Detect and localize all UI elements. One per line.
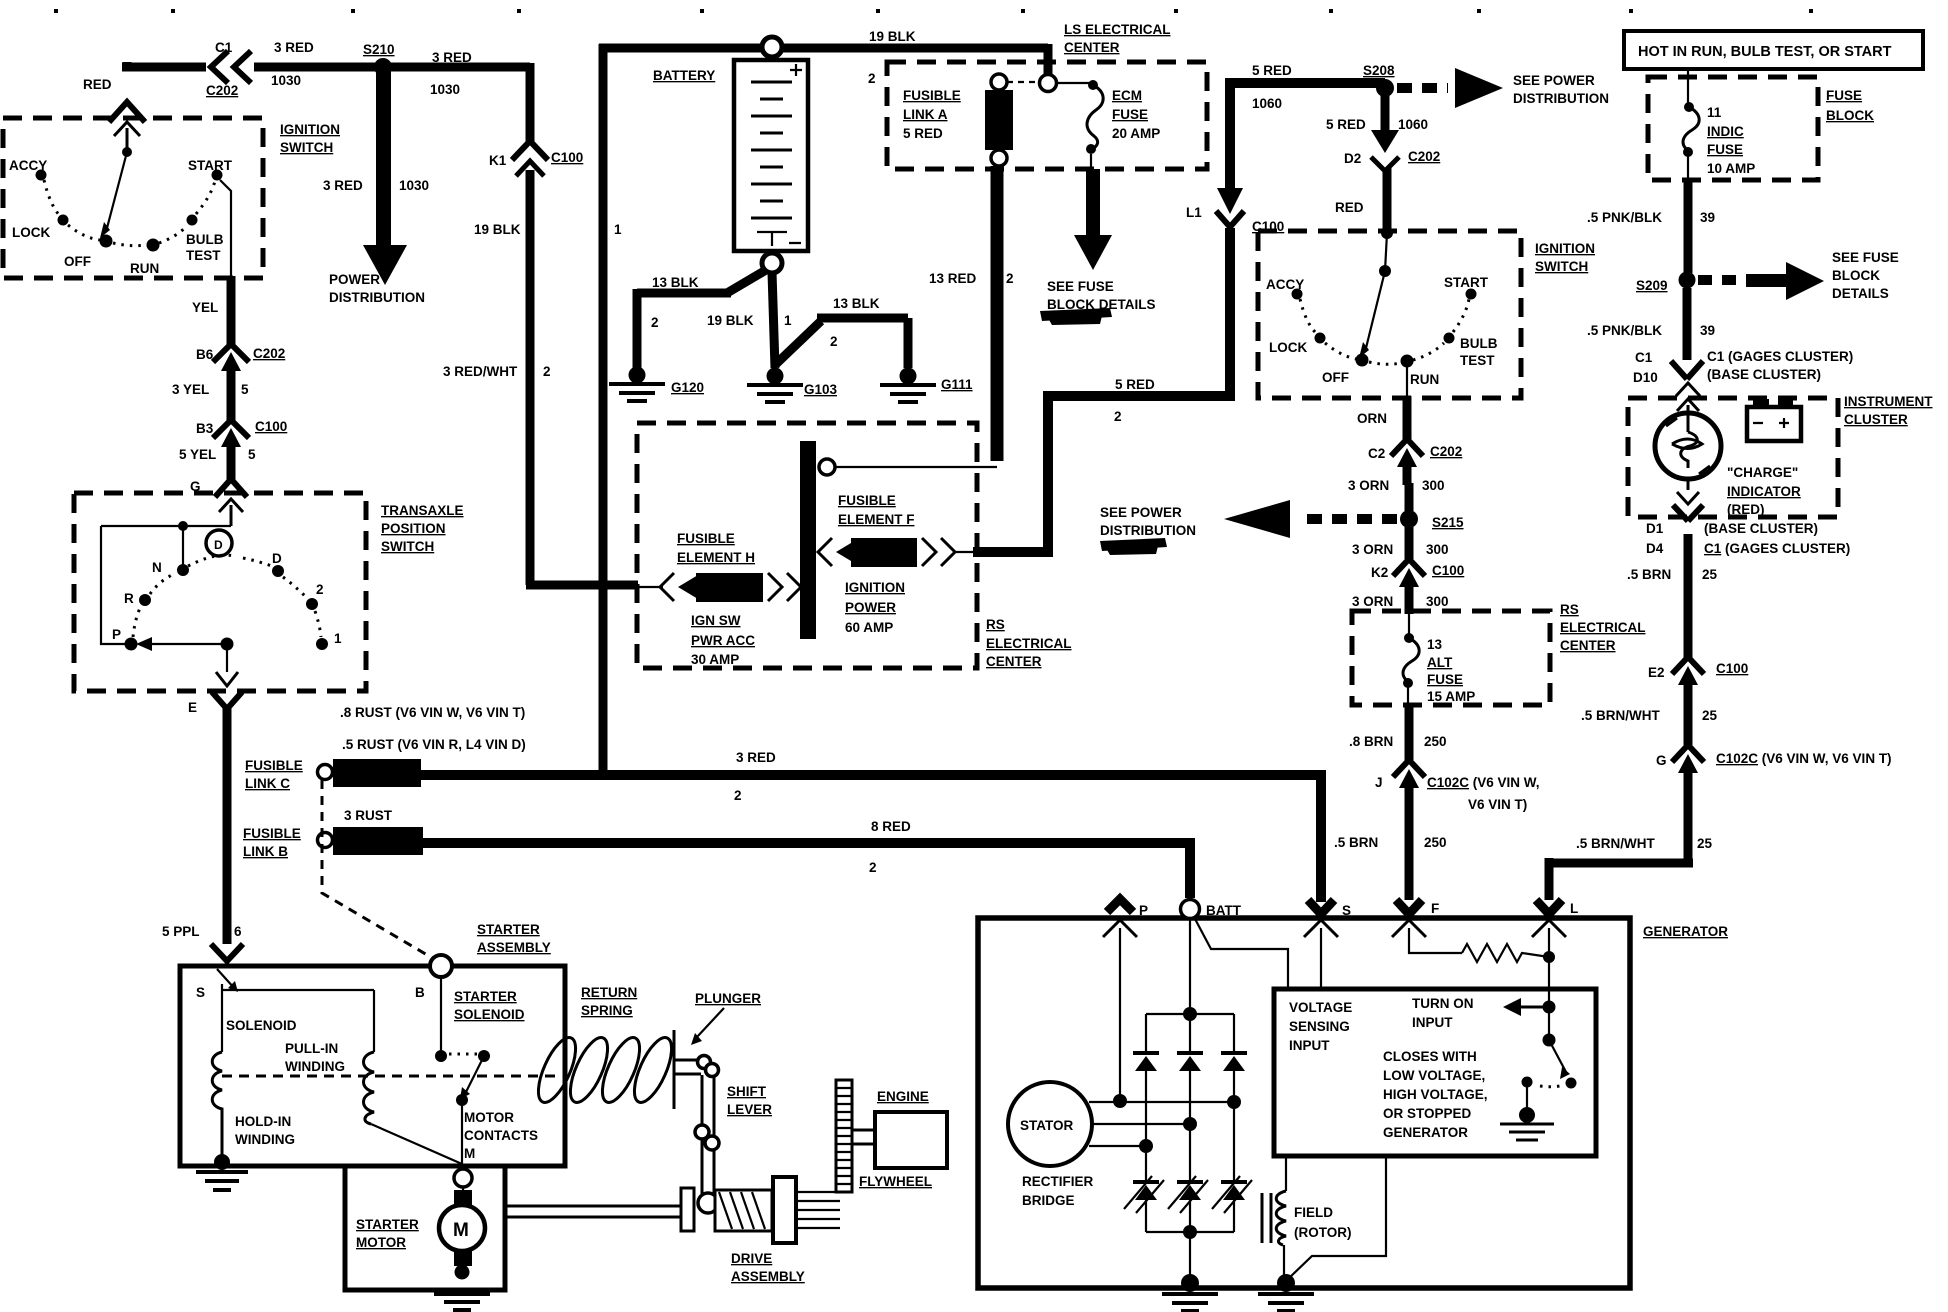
field ground <box>1277 1274 1295 1292</box>
node START <box>212 170 223 181</box>
wire from pivot down to E <box>226 644 228 672</box>
svg-text:30 AMP: 30 AMP <box>691 652 739 667</box>
terminal L <box>1536 900 1562 914</box>
svg-text:ELEMENT F: ELEMENT F <box>838 512 915 527</box>
terminal S <box>1308 900 1334 914</box>
pull-in winding coil <box>364 1052 375 1124</box>
svg-text:C100: C100 <box>1716 661 1748 676</box>
svg-text:R: R <box>124 591 134 606</box>
instrument cluster box <box>1628 398 1838 517</box>
RS electrical center box (right) <box>1352 611 1550 705</box>
svg-text:RUN: RUN <box>130 261 159 276</box>
svg-text:13 BLK: 13 BLK <box>652 275 699 290</box>
svg-text:C202: C202 <box>253 346 285 361</box>
svg-text:STARTER: STARTER <box>356 1217 419 1232</box>
wire .5 PNK/BLK 39 below S209 <box>1683 288 1692 360</box>
wire corner down to K1 <box>526 63 535 142</box>
svg-text:25: 25 <box>1697 836 1713 851</box>
svg-text:LINK C: LINK C <box>245 776 290 791</box>
svg-text:.8 RUST (V6 VIN W, V6 VIN T): .8 RUST (V6 VIN W, V6 VIN T) <box>340 705 525 720</box>
svg-text:START: START <box>1444 275 1489 290</box>
svg-text:6: 6 <box>234 924 242 939</box>
ECM fuse <box>1088 80 1098 90</box>
svg-text:ALT: ALT <box>1427 655 1453 670</box>
ground G103 <box>767 368 784 385</box>
svg-text:INSTRUMENT: INSTRUMENT <box>1844 394 1933 409</box>
svg-text:(BASE CLUSTER): (BASE CLUSTER) <box>1707 367 1821 382</box>
svg-text:.5 BRN: .5 BRN <box>1627 567 1671 582</box>
svg-text:"CHARGE": "CHARGE" <box>1727 465 1798 480</box>
motor ground <box>455 1265 470 1280</box>
svg-text:S209: S209 <box>1636 278 1668 293</box>
plunger <box>674 1030 701 1109</box>
svg-text:CONTACTS: CONTACTS <box>464 1128 538 1143</box>
wire 3 RED horizontal from ignition switch to K1 corner <box>122 62 530 71</box>
connector RED into ignition switch <box>109 102 145 122</box>
svg-text:.5 PNK/BLK: .5 PNK/BLK <box>1587 323 1662 338</box>
B terminal circle <box>430 955 452 977</box>
bus bar <box>800 441 816 639</box>
svg-text:3 RED: 3 RED <box>432 50 472 65</box>
svg-text:J: J <box>1375 775 1383 790</box>
bottom diodes with gates <box>1133 1180 1247 1200</box>
drive assembly <box>681 1188 694 1231</box>
svg-text:FUSE: FUSE <box>1707 142 1743 157</box>
svg-text:P: P <box>1139 903 1148 918</box>
svg-text:5 YEL: 5 YEL <box>179 447 216 462</box>
svg-text:FUSIBLE: FUSIBLE <box>245 758 303 773</box>
dashed arrow SEE POWER DISTRIBUTION (left) <box>1298 514 1397 524</box>
svg-text:C1: C1 <box>1635 350 1653 365</box>
svg-text:SEE POWER: SEE POWER <box>1100 505 1182 520</box>
svg-text:ASSEMBLY: ASSEMBLY <box>731 1269 805 1284</box>
svg-text:INDICATOR: INDICATOR <box>1727 484 1801 499</box>
svg-text:ELECTRICAL: ELECTRICAL <box>986 636 1072 651</box>
battery icon <box>1753 399 1769 410</box>
LS electrical center box <box>887 62 1207 169</box>
svg-text:SWITCH: SWITCH <box>280 140 333 155</box>
wire ORN from RUN down <box>1406 361 1408 396</box>
connector C1/C202 on horizontal wire <box>206 52 254 82</box>
svg-text:YEL: YEL <box>192 300 218 315</box>
connector E2 C100 <box>1672 657 1704 674</box>
node LOCK <box>1315 333 1326 344</box>
svg-text:TURN ON: TURN ON <box>1412 996 1474 1011</box>
svg-text:1: 1 <box>784 313 792 328</box>
svg-text:39: 39 <box>1700 210 1715 225</box>
svg-text:CLOSES WITH: CLOSES WITH <box>1383 1049 1477 1064</box>
node RUN <box>1401 355 1414 368</box>
svg-text:RED: RED <box>1335 200 1364 215</box>
dotted arc of switch positions <box>44 180 215 246</box>
svg-text:3 ORN: 3 ORN <box>1348 478 1389 493</box>
mid junctions <box>1227 1095 1241 1109</box>
node 1 <box>316 638 328 650</box>
svg-text:19 BLK: 19 BLK <box>707 313 754 328</box>
svg-text:STARTER: STARTER <box>454 989 517 1004</box>
wire 19 BLK battery top feed <box>599 44 1048 779</box>
svg-text:POWER: POWER <box>845 600 896 615</box>
svg-text:WINDING: WINDING <box>285 1059 345 1074</box>
svg-text:M: M <box>453 1220 469 1241</box>
fuse block box <box>1648 77 1818 180</box>
splice S209 <box>1679 272 1696 289</box>
svg-text:3 RED: 3 RED <box>274 40 314 55</box>
svg-text:DISTRIBUTION: DISTRIBUTION <box>1513 91 1609 106</box>
splice S208 <box>1376 79 1394 97</box>
wire 5 YEL 5 <box>227 463 236 480</box>
svg-text:3 RED: 3 RED <box>736 750 776 765</box>
svg-text:K2: K2 <box>1371 565 1388 580</box>
svg-text:3 ORN: 3 ORN <box>1352 594 1393 609</box>
wire .5 PNK/BLK 39 <box>1684 180 1693 273</box>
svg-text:2: 2 <box>830 334 838 349</box>
dashed link to junction circle <box>1007 81 1040 83</box>
svg-text:3 RED/WHT: 3 RED/WHT <box>443 364 518 379</box>
transaxle position switch box <box>74 493 366 691</box>
svg-text:300: 300 <box>1426 542 1449 557</box>
node LOCK <box>58 215 69 226</box>
svg-text:G111: G111 <box>941 377 973 392</box>
svg-text:BULB: BULB <box>1460 336 1498 351</box>
battery B- terminal circle <box>762 253 782 273</box>
motor shaft <box>505 1206 681 1217</box>
svg-text:FUSE: FUSE <box>1826 88 1862 103</box>
ALT fuse <box>1408 611 1410 638</box>
charge indicator lamp <box>1655 413 1721 479</box>
wire 13 RED down from fusible link A <box>991 166 1004 461</box>
svg-text:1030: 1030 <box>430 82 460 97</box>
svg-text:250: 250 <box>1424 734 1447 749</box>
INDIC fuse <box>1687 69 1689 107</box>
svg-text:B: B <box>415 985 425 1000</box>
svg-text:SEE POWER: SEE POWER <box>1513 73 1595 88</box>
svg-text:3 RUST: 3 RUST <box>344 808 393 823</box>
svg-text:D10: D10 <box>1633 370 1658 385</box>
svg-text:ACCY: ACCY <box>1266 277 1304 292</box>
svg-text:ECM: ECM <box>1112 88 1142 103</box>
svg-text:C102C (V6 VIN W,: C102C (V6 VIN W, <box>1427 775 1540 790</box>
svg-text:RECTIFIER: RECTIFIER <box>1022 1174 1094 1189</box>
svg-text:D1: D1 <box>1646 521 1664 536</box>
connector B3 C100 <box>213 420 249 438</box>
regulator field output <box>1288 1156 1386 1279</box>
svg-text:BATT: BATT <box>1206 903 1242 918</box>
svg-text:CLUSTER: CLUSTER <box>1844 412 1908 427</box>
svg-text:S: S <box>196 985 205 1000</box>
connector D2 C202 <box>1371 130 1399 153</box>
svg-text:300: 300 <box>1422 478 1445 493</box>
junction circle <box>1040 75 1057 92</box>
generator box <box>978 918 1630 1288</box>
svg-text:5 RED: 5 RED <box>1326 117 1366 132</box>
node OFF <box>100 235 113 248</box>
rectifier bottom bus <box>1146 1200 1234 1232</box>
wire .5 BRN/WHT 25 <box>1684 699 1693 745</box>
wire .5 BRN 25 <box>1684 534 1693 658</box>
svg-text:250: 250 <box>1424 835 1447 850</box>
svg-text:IGNITION: IGNITION <box>1535 241 1595 256</box>
RS electrical center box <box>637 423 977 668</box>
svg-text:FUSIBLE: FUSIBLE <box>243 826 301 841</box>
circle tap on bus to 13 RED <box>819 459 835 475</box>
connector K1 C100 <box>512 141 548 160</box>
svg-text:V6 VIN T): V6 VIN T) <box>1468 797 1527 812</box>
svg-text:GENERATOR: GENERATOR <box>1383 1125 1468 1140</box>
wire 3 ORN 300 <box>1405 483 1414 511</box>
wire 13 BLK to G111 <box>776 318 908 368</box>
svg-text:5: 5 <box>248 447 256 462</box>
switch arm arrow (right ignition switch) <box>1385 233 1387 271</box>
splice S215 <box>1400 510 1418 528</box>
wire 3 YEL 5 <box>227 387 236 422</box>
svg-text:OR STOPPED: OR STOPPED <box>1383 1106 1472 1121</box>
dotted arcs transaxle <box>133 555 321 637</box>
svg-text:STARTER: STARTER <box>477 922 540 937</box>
wire 8 RED to generator BATT <box>421 838 1190 898</box>
svg-text:S215: S215 <box>1432 515 1464 530</box>
svg-text:PLUNGER: PLUNGER <box>695 991 761 1006</box>
svg-text:CENTER: CENTER <box>986 654 1042 669</box>
svg-text:ELECTRICAL: ELECTRICAL <box>1560 620 1646 635</box>
node P <box>125 638 138 651</box>
connector B6 C202 <box>213 344 249 362</box>
svg-text:SOLENOID: SOLENOID <box>226 1018 297 1033</box>
svg-text:RED: RED <box>83 77 112 92</box>
svg-text:C1 (GAGES CLUSTER): C1 (GAGES CLUSTER) <box>1704 541 1850 556</box>
svg-text:SHIFT: SHIFT <box>727 1084 767 1099</box>
motor M circle <box>439 1205 485 1251</box>
wire .8 BRN 250 <box>1405 705 1414 760</box>
svg-text:FUSIBLE: FUSIBLE <box>838 493 896 508</box>
svg-text:FLYWHEEL: FLYWHEEL <box>859 1174 932 1189</box>
starter motor M terminal <box>454 1169 472 1187</box>
svg-text:IGNITION: IGNITION <box>280 122 340 137</box>
svg-text:2: 2 <box>868 71 876 86</box>
svg-text:DISTRIBUTION: DISTRIBUTION <box>1100 523 1196 538</box>
svg-text:BLOCK: BLOCK <box>1832 268 1880 283</box>
svg-text:POSITION: POSITION <box>381 521 446 536</box>
connector E <box>212 692 242 709</box>
svg-text:RS: RS <box>986 617 1005 632</box>
svg-text:HIGH VOLTAGE,: HIGH VOLTAGE, <box>1383 1087 1488 1102</box>
svg-text:(ROTOR): (ROTOR) <box>1294 1225 1352 1240</box>
svg-text:LEVER: LEVER <box>727 1102 772 1117</box>
svg-text:1030: 1030 <box>271 73 301 88</box>
svg-text:DETAILS: DETAILS <box>1832 286 1889 301</box>
svg-text:M: M <box>464 1146 475 1161</box>
svg-text:P: P <box>112 627 121 642</box>
svg-text:3 RED: 3 RED <box>323 178 363 193</box>
svg-text:SEE FUSE: SEE FUSE <box>1832 250 1899 265</box>
svg-text:S208: S208 <box>1363 63 1395 78</box>
dashed link line to starter B terminal <box>322 780 434 959</box>
svg-text:RETURN: RETURN <box>581 985 637 1000</box>
node D <box>272 565 284 577</box>
svg-text:10 AMP: 10 AMP <box>1707 161 1755 176</box>
svg-text:FUSIBLE: FUSIBLE <box>677 531 735 546</box>
svg-text:S: S <box>1342 903 1351 918</box>
wire .5 BRN/WHT 25 down to L <box>1549 787 1693 900</box>
svg-text:K1: K1 <box>489 153 507 168</box>
svg-text:TEST: TEST <box>1460 353 1495 368</box>
connector K2 C100 <box>1393 559 1425 576</box>
svg-text:ACCY: ACCY <box>9 158 47 173</box>
svg-text:LINK A: LINK A <box>903 107 948 122</box>
wire 3 RED/WHT down and right to fusible element H <box>526 170 638 585</box>
S input arrow inside <box>217 969 235 989</box>
svg-text:IGNITION: IGNITION <box>845 580 905 595</box>
top diodes <box>1133 1051 1247 1071</box>
svg-text:20 AMP: 20 AMP <box>1112 126 1160 141</box>
svg-text:POWER: POWER <box>329 272 380 287</box>
ground G111 <box>900 368 917 385</box>
pivot node <box>221 638 234 651</box>
svg-text:OFF: OFF <box>64 254 91 269</box>
junction P line to stator <box>1113 1094 1127 1108</box>
node OFF <box>1356 354 1369 367</box>
svg-text:S210: S210 <box>363 42 395 57</box>
svg-text:D2: D2 <box>1344 151 1361 166</box>
svg-text:25: 25 <box>1702 567 1718 582</box>
svg-text:SENSING: SENSING <box>1289 1019 1350 1034</box>
svg-text:LS ELECTRICAL: LS ELECTRICAL <box>1064 22 1171 37</box>
svg-text:C102C (V6 VIN W, V6 VIN T): C102C (V6 VIN W, V6 VIN T) <box>1716 751 1892 766</box>
wire 13 BLK to G120 <box>637 270 766 372</box>
svg-text:DRIVE: DRIVE <box>731 1251 772 1266</box>
svg-text:DISTRIBUTION: DISTRIBUTION <box>329 290 425 305</box>
wire 3 RED to generator S <box>419 770 1321 902</box>
svg-text:PWR ACC: PWR ACC <box>691 633 755 648</box>
svg-text:2: 2 <box>734 788 742 803</box>
svg-text:TRANSAXLE: TRANSAXLE <box>381 503 464 518</box>
pull-in winding to motor contact diagonal <box>371 1124 462 1164</box>
field rotor coil <box>1285 1156 1287 1191</box>
mechanical dashed line <box>222 1075 560 1078</box>
svg-text:19 BLK: 19 BLK <box>869 29 916 44</box>
motor contacts <box>440 977 442 1051</box>
svg-text:5 RED: 5 RED <box>1115 377 1155 392</box>
svg-text:INPUT: INPUT <box>1412 1015 1453 1030</box>
switch arm arrow (left ignition switch) <box>122 147 132 157</box>
svg-text:B6: B6 <box>196 347 214 362</box>
svg-text:G120: G120 <box>671 380 704 395</box>
svg-text:WINDING: WINDING <box>235 1132 295 1147</box>
connector L1 C100 <box>1217 188 1243 214</box>
rectifier top bus <box>1146 1014 1234 1053</box>
svg-text:BATTERY: BATTERY <box>653 68 715 83</box>
svg-text:CENTER: CENTER <box>1560 638 1616 653</box>
junction on L line at resistor <box>1543 951 1555 963</box>
svg-text:RUN: RUN <box>1410 372 1439 387</box>
return spring coil <box>531 1033 679 1108</box>
svg-text:2: 2 <box>1114 409 1122 424</box>
starter assembly box <box>180 966 565 1166</box>
svg-text:RS: RS <box>1560 602 1579 617</box>
svg-text:15 AMP: 15 AMP <box>1427 689 1475 704</box>
svg-text:HOT IN RUN, BULB TEST, OR STA: HOT IN RUN, BULB TEST, OR START <box>1638 44 1892 60</box>
svg-text:FUSE: FUSE <box>1112 107 1148 122</box>
svg-text:MOTOR: MOTOR <box>356 1235 406 1250</box>
wire 5 PPL down to starter S <box>223 706 232 944</box>
connector G C102C <box>1672 745 1704 762</box>
svg-text:LINK B: LINK B <box>243 844 288 859</box>
starter motor box <box>345 1166 505 1290</box>
svg-text:C100: C100 <box>551 150 583 165</box>
svg-text:OFF: OFF <box>1322 370 1349 385</box>
scribbled out cell reference <box>1040 308 1112 325</box>
see fuse block details arrow <box>1090 154 1092 170</box>
svg-text:(RED): (RED) <box>1727 502 1765 517</box>
svg-text:.5 PNK/BLK: .5 PNK/BLK <box>1587 210 1662 225</box>
svg-text:13 BLK: 13 BLK <box>833 296 880 311</box>
svg-text:ENGINE: ENGINE <box>877 1089 929 1104</box>
svg-text:MOTOR: MOTOR <box>464 1110 514 1125</box>
svg-text:D4: D4 <box>1646 541 1664 556</box>
stator leads <box>1089 1102 1234 1146</box>
svg-text:11: 11 <box>1707 105 1722 120</box>
wire 5 RED up to S208 <box>1225 83 1385 190</box>
connector C2 C202 <box>1391 439 1423 456</box>
svg-text:1030: 1030 <box>399 178 429 193</box>
svg-text:C100: C100 <box>255 419 287 434</box>
ground G120 <box>629 367 646 384</box>
svg-text:.5 BRN: .5 BRN <box>1334 835 1378 850</box>
svg-text:LOCK: LOCK <box>1269 340 1307 355</box>
svg-text:SPRING: SPRING <box>581 1003 633 1018</box>
svg-text:G: G <box>1656 753 1667 768</box>
wire 19 BLK to G103 <box>772 272 775 368</box>
node START <box>1466 289 1477 300</box>
svg-text:BULB: BULB <box>186 232 224 247</box>
svg-text:5: 5 <box>241 382 249 397</box>
svg-text:5 PPL: 5 PPL <box>162 924 200 939</box>
svg-text:IGN SW: IGN SW <box>691 613 741 628</box>
ignition switch box (left) <box>3 118 263 278</box>
node RUN <box>147 239 160 252</box>
wire 5 RED down from S208 to D2 <box>1381 95 1390 135</box>
svg-text:VOLTAGE: VOLTAGE <box>1289 1000 1352 1015</box>
svg-text:2: 2 <box>543 364 551 379</box>
wire 3 ORN 300 into RS box right <box>1405 603 1414 614</box>
svg-text:E2: E2 <box>1648 665 1665 680</box>
svg-text:FUSE: FUSE <box>1427 672 1463 687</box>
svg-text:B3: B3 <box>196 421 214 436</box>
svg-text:SOLENOID: SOLENOID <box>454 1007 525 1022</box>
battery B+ terminal circle <box>762 37 782 57</box>
svg-text:GENERATOR: GENERATOR <box>1643 924 1728 939</box>
wire 3 ORN 300 below S215 <box>1405 527 1414 559</box>
svg-text:2: 2 <box>869 860 877 875</box>
wire .5 BRN 250 down to F <box>1405 804 1414 900</box>
scribbled out cell reference <box>1100 538 1167 555</box>
node R <box>139 594 151 606</box>
svg-text:D: D <box>272 551 282 566</box>
svg-text:C100: C100 <box>1432 563 1464 578</box>
wire from START down <box>220 180 231 278</box>
stator <box>1008 1082 1092 1166</box>
svg-text:1: 1 <box>334 631 342 646</box>
svg-text:ASSEMBLY: ASSEMBLY <box>477 940 551 955</box>
svg-text:L1: L1 <box>1186 205 1202 220</box>
node N <box>177 564 189 576</box>
svg-text:1060: 1060 <box>1398 117 1428 132</box>
regulator switch <box>1543 1034 1556 1047</box>
svg-text:ORN: ORN <box>1357 411 1387 426</box>
svg-text:5 RED: 5 RED <box>1252 63 1292 78</box>
node ACCY <box>1292 289 1303 300</box>
arrow SEE FUSE BLOCK DETAILS <box>1698 275 1746 285</box>
